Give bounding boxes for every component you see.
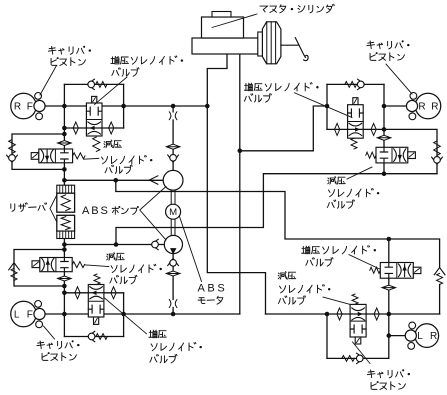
flow diamond left of LF increase valve <box>75 287 80 299</box>
wire: LF increase valve line <box>64 292 123 294</box>
RF increase valve bottom cell symbol <box>86 122 102 134</box>
pointer line for RF reduce label <box>84 157 99 160</box>
label: ABS pump text <box>82 205 139 217</box>
pump 1 inlet arrow <box>149 176 158 184</box>
pointer line for LF increase label <box>104 298 147 334</box>
pointer line for LR increase label <box>349 255 379 269</box>
label: RF increase valve label line2 <box>112 68 139 77</box>
wire: LF bypass bottom <box>64 336 123 338</box>
wire: RF reduce bypass left branch <box>12 134 64 169</box>
RR increase valve top cell symbol <box>348 109 364 117</box>
wire: LR bypass bottom <box>327 357 389 359</box>
label: RF reduce valve label line3 <box>105 165 132 174</box>
label: RR reduce valve label line3 <box>327 200 354 209</box>
wire: LF loop right vertical <box>123 293 125 337</box>
ABS pump 1 circle <box>163 170 183 190</box>
master cylinder cap <box>212 12 231 18</box>
RR reduce valve spring <box>366 152 376 158</box>
RF increase valve split line <box>86 119 102 121</box>
check valve diamond above RR reduce valve <box>377 135 391 140</box>
LR increase valve split line <box>396 263 398 279</box>
pointer line for LF caliper label <box>44 326 55 339</box>
brake booster connector <box>258 32 263 56</box>
label: RR caliper piston line1 <box>367 40 410 49</box>
check valve in LR bypass <box>356 353 363 363</box>
pointer line for LF reduce label <box>85 265 109 267</box>
check valve ball above pump 1 <box>168 154 179 162</box>
check valve diamond below pump 2 <box>166 271 180 276</box>
pointer line for ABS motor label <box>180 217 202 282</box>
increase solenoid valve LR body <box>380 263 413 279</box>
label: LR caliper piston line1 <box>367 369 410 378</box>
solenoid of LR increase valve <box>413 267 421 273</box>
restrictor spring in LR right branch <box>437 273 443 284</box>
wire: pump column bottom (pump 2 down to bottom bus) <box>172 253 174 314</box>
label: RR increase valve label line1 <box>244 83 318 91</box>
wire: RR main vertical <box>383 84 385 173</box>
label: LF reduce valve label line3 <box>110 275 137 284</box>
reduce solenoid valve LF body <box>40 258 72 272</box>
svg-text:ABS: ABS <box>198 283 228 295</box>
label: RR reduce valve label line1 <box>328 177 345 185</box>
flow diamond right of RF increase valve <box>109 122 114 134</box>
solenoid of LF reduce valve <box>32 261 40 268</box>
reservoir spring 2 <box>61 217 70 230</box>
pump shaft lower <box>171 219 175 235</box>
LF reduce valve left cell symbol <box>42 258 54 271</box>
label: LF reduce valve label line1 <box>107 253 124 261</box>
svg-text:R: R <box>14 102 21 113</box>
LR reduce valve spring <box>352 294 358 304</box>
label: RR caliper piston line2 <box>370 52 404 61</box>
brake pedal <box>281 38 308 61</box>
label: LR reduce valve label line3 <box>278 296 305 305</box>
label: RF reduce valve label line1 <box>104 140 121 148</box>
LR reduce valve split line <box>350 320 366 322</box>
svg-text:R: R <box>431 102 438 113</box>
reservoir spring 1 <box>61 195 70 211</box>
check valve diamond below LF reduce valve <box>58 276 72 281</box>
LF reduce valve split line <box>55 258 57 272</box>
solenoid of LF increase valve <box>94 317 99 324</box>
check valve diamond above pump 1 <box>166 144 180 149</box>
check valve seat in LF left branch <box>9 263 20 270</box>
master cylinder body <box>192 38 258 54</box>
wire: RR reduce output bus and riser to line B <box>116 174 437 245</box>
wire: MC port2 branch jog to RR supply <box>240 106 327 151</box>
svg-text:F: F <box>27 102 33 113</box>
LR increase valve right cell symbol <box>399 264 411 277</box>
RR increase valve split line <box>348 121 364 123</box>
caliper piston RR wheel <box>406 93 440 120</box>
flow diamond right of LF increase valve <box>111 287 116 299</box>
LF increase valve spring <box>94 274 100 284</box>
wire: RF bypass top <box>64 83 123 85</box>
RF reduce valve split line <box>54 149 56 163</box>
RR reduce valve right cell symbol <box>394 149 406 162</box>
wire: bottom supply bus to LF wheel <box>45 313 240 315</box>
wire: RR increase valve line <box>327 128 384 130</box>
wire: RR loop left vertical <box>326 84 328 129</box>
wire: LR right branch lower segment <box>439 285 441 315</box>
reduce solenoid valve LR body <box>350 304 366 337</box>
pointer line for LR reduce label <box>323 297 350 304</box>
label: LF increase valve label line2 <box>151 342 202 350</box>
RR increase valve spring <box>351 138 357 149</box>
svg-text:R: R <box>430 331 437 342</box>
RR increase valve bottom cell symbol <box>348 123 364 135</box>
label: LF increase valve label line3 <box>150 354 177 363</box>
LF increase valve bottom cell symbol <box>88 305 104 313</box>
label: LF caliper piston line1 <box>37 340 80 349</box>
label: master cylinder マスタ・シリンダ <box>260 4 334 13</box>
master cylinder reservoir <box>202 17 244 38</box>
label: LF reduce valve label line2 <box>111 264 162 272</box>
increase solenoid valve RR body <box>348 105 364 139</box>
caliper piston RF wheel <box>11 93 45 120</box>
solenoid of RF increase valve <box>92 96 97 103</box>
svg-text:L: L <box>417 331 423 342</box>
check valve diamond above RF reduce valve <box>58 141 72 146</box>
pointer bracket for reservoir label <box>50 195 57 222</box>
restrictor spring in RF bypass <box>96 82 107 88</box>
flow diamond right of RR increase valve <box>371 123 376 135</box>
ABS pump 2 outlet arrow <box>170 248 177 254</box>
LF increase valve top cell symbol <box>88 287 104 299</box>
ABS pump 1 outlet arrow <box>170 171 176 177</box>
label: LR increase valve label line1 <box>302 246 376 254</box>
reservoir bottom hatch <box>57 231 75 238</box>
increase solenoid valve RF body <box>86 103 102 136</box>
solenoid of RR reduce valve <box>408 152 416 159</box>
wire: RF loop right vertical <box>123 84 125 128</box>
check valve in RR bypass <box>357 79 364 89</box>
svg-text:R: R <box>418 102 425 113</box>
label: LR reduce valve label line1 <box>278 272 295 280</box>
wire: RR right branch <box>384 129 437 173</box>
LR reduce valve top cell symbol <box>350 308 366 320</box>
label: LR reduce valve label line2 <box>280 285 331 293</box>
flow diamond left of LR reduce valve <box>337 308 342 320</box>
pointer line for RR increase label <box>295 93 353 118</box>
RF increase valve top cell symbol <box>86 107 102 115</box>
wire: LR loop left vertical <box>326 314 328 358</box>
reduce solenoid valve RF body <box>39 149 73 163</box>
svg-text:M: M <box>169 207 177 218</box>
check valve seat in LR right branch <box>434 268 445 275</box>
check valve in RF bypass <box>87 79 94 89</box>
pointer line for LR caliper label <box>353 342 371 364</box>
restrictor spring in RR right branch <box>434 141 441 156</box>
flow diamond left of RF increase valve <box>73 122 78 134</box>
svg-text:ABS: ABS <box>82 205 110 217</box>
wire: master cylinder port 2 down to LF/bottom supply bus <box>239 54 241 314</box>
check valve ball below pump 2 <box>168 258 179 266</box>
svg-text:F: F <box>27 310 33 321</box>
LF reduce valve spring <box>72 262 84 268</box>
wire: RR wheel line <box>384 105 406 107</box>
wire: LR bus <box>266 313 440 315</box>
wire: master cylinder port 1 to RF supply line and down to LR supply <box>207 54 265 314</box>
wire: top reservoir bus to pump 1 <box>64 179 163 181</box>
reduce solenoid valve RR body <box>376 147 408 163</box>
label: LF increase valve label line1 <box>149 330 166 338</box>
svg-text:L: L <box>14 310 20 321</box>
wire: LR wheel line <box>389 335 407 337</box>
restrictor spring in LR bypass <box>342 356 355 362</box>
reservoir chamber 1 <box>57 193 75 212</box>
RR reduce valve left cell symbol <box>380 147 387 163</box>
solenoid of LR reduce valve <box>355 337 361 344</box>
pointer lines for ABS pump label <box>140 187 166 241</box>
label: LF caliper piston line2 <box>42 352 76 361</box>
RF reduce valve right cell symbol <box>61 149 68 163</box>
ABS pump 2 circle <box>164 235 182 253</box>
restrictor spring in LF bypass <box>96 334 107 340</box>
check valve ball in RR right branch <box>432 157 443 165</box>
label: LR caliper piston line2 <box>371 381 405 390</box>
LR reduce valve bottom cell symbol <box>350 325 366 333</box>
pointer line for RF caliper label <box>40 66 57 96</box>
label: RF reduce valve label line2 <box>102 155 153 163</box>
wire: main vertical reservoir-to-LF segment <box>63 239 65 337</box>
RF increase valve spring <box>93 137 100 152</box>
reservoir chamber 2 <box>57 215 75 231</box>
label: RR increase valve label line2 <box>244 94 271 103</box>
pointer line for master cylinder label <box>212 14 257 28</box>
label: RR reduce valve label line2 <box>328 188 379 196</box>
flow diamond right of LR reduce valve <box>374 308 379 320</box>
label: reservoir label リザーバ <box>11 203 47 212</box>
pointer line for RF increase label <box>95 77 128 105</box>
orifice )( on pump 2 outlet line <box>169 300 177 308</box>
wire: pump column top (RF line down to pump 1) <box>172 106 174 171</box>
check valve ball in RF left branch <box>7 155 18 163</box>
wire: RF main vertical upper <box>63 84 65 185</box>
label: ABS motor text <box>198 283 228 305</box>
wire: LR main vertical <box>388 239 390 358</box>
LF reduce valve right cell symbol <box>61 258 68 272</box>
flow diamond left of RR increase valve <box>335 123 340 135</box>
wire: lower reservoir bus to pump 2 inlet <box>64 244 164 246</box>
wire: LF bypass left branch <box>14 250 64 287</box>
restrictor spring in RF left branch <box>9 140 16 154</box>
restrictor spring in RR bypass <box>345 82 357 88</box>
LF increase valve split line <box>88 300 104 302</box>
LR increase valve left cell symbol <box>385 262 392 278</box>
pointer line for RR reduce label <box>347 167 372 179</box>
pump 2 inlet check valve <box>151 239 158 249</box>
increase solenoid valve LF body <box>88 285 104 318</box>
reservoir top hatch <box>57 185 75 193</box>
LR increase valve spring <box>370 267 381 273</box>
restrictor spring in LF left branch <box>11 268 17 280</box>
pointer line for RR caliper label <box>386 64 412 94</box>
caliper piston LF wheel <box>11 301 45 328</box>
label: RF increase valve label line1 <box>111 56 183 64</box>
caliper piston LR wheel <box>405 322 438 349</box>
solenoid of RR increase valve <box>353 98 358 105</box>
wire: RF increase valve line <box>64 127 123 129</box>
wire: pump outlet jog to LR top line (staircase) <box>116 180 440 267</box>
RF reduce valve left cell symbol <box>41 150 53 163</box>
label: LR increase valve label line2 <box>306 258 333 267</box>
check valve in LF bypass <box>88 331 95 341</box>
check valve diamond below LR increase valve <box>382 285 396 290</box>
ABS motor circle <box>166 204 181 219</box>
solenoid of RF reduce valve <box>31 153 39 160</box>
RR reduce valve split line <box>391 147 393 163</box>
label: RF caliper piston line1 <box>48 46 91 55</box>
wire: RR bypass top <box>327 83 384 85</box>
orifice )( on pump 1 outlet line <box>169 112 177 120</box>
RF reduce valve spring <box>73 153 85 159</box>
brake booster <box>262 22 281 64</box>
label: RF caliper piston line2 <box>51 57 85 66</box>
wire: RF wheel line <box>45 105 207 107</box>
pump shaft upper <box>171 191 175 205</box>
